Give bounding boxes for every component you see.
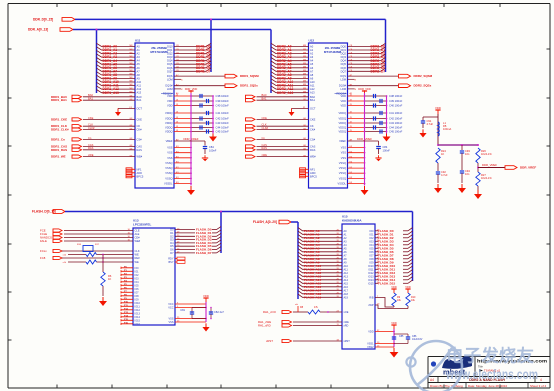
svg-text:A5: A5 [310,62,314,66]
svg-text:A19: A19 [344,296,349,299]
svg-text:DDR_VREF: DDR_VREF [357,137,372,141]
svg-text:LDM: LDM [167,77,172,81]
svg-text:WE#: WE# [137,155,143,159]
svg-text:RAS: RAS [137,148,143,152]
svg-text:VSSQ: VSSQ [165,176,172,180]
svg-text:VSS: VSS [168,321,173,324]
svg-text:VSSDL: VSSDL [337,182,346,186]
svg-text:BA0: BA0 [137,95,142,99]
svg-text:VDDQ: VDDQ [339,117,347,121]
svg-text:VDD: VDD [435,106,441,110]
svg-text:DQ4: DQ4 [341,59,347,63]
svg-text:WE: WE [135,260,139,264]
svg-text:FC8: FC8 [40,256,46,260]
svg-text:C81: C81 [180,308,185,312]
svg-text:A11: A11 [137,84,142,88]
svg-text:RH1_xRD: RH1_xRD [258,324,271,328]
svg-text:Date: Monday, June 28, 2010: Date: Monday, June 28, 2010 [468,384,507,388]
svg-text:DDR1_WE: DDR1_WE [51,155,66,159]
svg-text:1K24-1%: 1K24-1% [481,176,492,180]
svg-text:Drawn By: The YaoSong: Drawn By: The YaoSong [430,384,463,388]
svg-text:DQ2: DQ2 [341,52,347,56]
svg-text:电子发烧友: 电子发烧友 [446,346,534,366]
svg-text:xOE: xOE [344,311,349,314]
svg-text:FCLx: FCLx [40,249,47,253]
svg-text:4: 4 [540,378,542,382]
svg-text:C42 100nF: C42 100nF [389,117,403,121]
svg-text:VREF: VREF [339,139,346,143]
svg-text:IO16: IO16 [135,323,141,326]
svg-text:CE#: CE# [135,236,141,240]
svg-text:VDDQ: VDDQ [339,126,347,130]
svg-text:FLASH_D[0..15]: FLASH_D[0..15] [32,210,56,214]
svg-text:VSS: VSS [341,151,346,155]
svg-text:VSS: VSS [167,146,172,150]
svg-text:C38 100nF: C38 100nF [389,94,403,98]
svg-text:VSS: VSS [167,151,172,155]
svg-text:A0: A0 [137,45,141,49]
svg-text:DDR_VDD: DDR_VDD [185,87,198,91]
svg-text:DDR1_A13: DDR1_A13 [103,91,120,95]
svg-text:BPC5: BPC5 [310,174,317,178]
svg-text:ALE: ALE [135,232,140,236]
svg-text:MT47H32M8: MT47H32M8 [150,50,168,54]
svg-text:xWP: xWP [368,304,374,307]
svg-text:VSS: VSS [341,156,346,160]
svg-text:A3: A3 [137,55,141,59]
svg-text:xRST: xRST [344,340,351,343]
svg-text:FLASH_D7: FLASH_D7 [196,251,212,255]
svg-text:A1: A1 [310,48,314,52]
svg-text:C38 100nF: C38 100nF [216,94,230,98]
svg-text:C43 100nF: C43 100nF [216,121,230,125]
svg-text:A13: A13 [310,91,315,95]
svg-text:VSS: VSS [341,146,346,150]
svg-text:xRD: xRD [344,325,349,328]
svg-text:CK#: CK# [310,128,316,132]
svg-text:VDD: VDD [368,331,373,334]
svg-text:A7: A7 [137,69,141,73]
svg-text:DDR1_SQSx: DDR1_SQSx [240,84,258,88]
svg-text:C45 100nF: C45 100nF [216,130,230,134]
svg-text:DQ2: DQ2 [167,52,173,56]
svg-text:DQ3: DQ3 [167,55,173,59]
svg-text:DDR_D[0..15]: DDR_D[0..15] [33,18,53,22]
svg-text:A8: A8 [137,73,141,77]
svg-text:VDD: VDD [391,285,397,289]
svg-text:A4: A4 [430,378,434,382]
svg-text:1K: 1K [441,152,444,156]
svg-text:A5: A5 [137,62,141,66]
svg-text:A13: A13 [137,91,142,95]
svg-text:DQ3: DQ3 [341,55,347,59]
svg-text:RH1_xOO: RH1_xOO [263,310,277,314]
svg-text:10n: 10n [465,172,470,176]
svg-text:DQ0: DQ0 [341,45,347,49]
svg-text:CLE: CLE [135,229,140,233]
svg-text:1K24-1%: 1K24-1% [481,152,492,156]
svg-text:VCC: VCC [168,307,173,310]
svg-text:FLASH_D15: FLASH_D15 [378,281,396,285]
svg-text:A2: A2 [310,52,314,56]
svg-text:VDD: VDD [203,294,209,298]
svg-text:www.elecfans.com: www.elecfans.com [445,367,538,382]
svg-text:VDDQ: VDDQ [165,126,173,130]
svg-text:VDD: VDD [167,94,173,98]
svg-text:CK: CK [310,124,314,128]
svg-text:IO15: IO15 [368,282,374,285]
svg-text:CS#: CS# [137,137,143,141]
svg-text:NF1: NF1 [310,167,315,171]
svg-text:DDR2_D7: DDR2_D7 [371,69,386,73]
svg-text:BA1: BA1 [137,98,142,102]
svg-text:LDM: LDM [341,87,346,91]
svg-text:A0: A0 [310,45,314,49]
svg-text:VSSQ: VSSQ [165,166,172,170]
svg-text:FLASH_A19: FLASH_A19 [304,295,322,299]
svg-text:K9G8G08U0A: K9G8G08U0A [342,218,362,222]
svg-text:C41 100nF: C41 100nF [389,111,403,115]
svg-text:A1: A1 [137,48,141,52]
svg-text:C84: C84 [209,145,214,149]
svg-text:VSSQ: VSSQ [165,161,172,165]
svg-text:DDR_VREF: DDR_VREF [520,166,536,170]
svg-text:VSSDL: VSSDL [164,182,173,186]
svg-text:A11: A11 [310,84,315,88]
svg-text:A12: A12 [137,87,142,91]
svg-text:xRST: xRST [266,339,273,343]
svg-text:DDR1_SQSM: DDR1_SQSM [240,74,259,78]
svg-text:DDR1_CLK#: DDR1_CLK# [51,128,69,132]
svg-text:CS#: CS# [310,137,316,141]
svg-text:U12: U12 [309,39,315,43]
svg-text:4.7uF: 4.7uF [441,173,448,177]
svg-text:DDR1_D7: DDR1_D7 [196,69,211,73]
svg-text:LPC3250FEL: LPC3250FEL [133,222,152,226]
svg-text:CKE: CKE [137,117,143,121]
svg-text:DDR1_BA1: DDR1_BA1 [51,98,67,102]
svg-text:A12: A12 [310,87,315,91]
svg-text:VSSQ: VSSQ [339,176,346,180]
svg-text:C45 100nF: C45 100nF [389,130,403,134]
svg-text:100nF: 100nF [209,149,217,153]
svg-text:WE#: WE# [135,239,141,243]
svg-text:VSSQ: VSSQ [339,166,346,170]
svg-text:C44 100nF: C44 100nF [216,126,230,130]
svg-text:DQ6: DQ6 [167,66,173,70]
svg-text:VDDQ: VDDQ [165,111,173,115]
svg-text:CK: CK [137,124,141,128]
svg-text:LDM: LDM [341,77,346,81]
svg-text:VREF: VREF [166,139,173,143]
svg-text:VDDQ: VDDQ [339,130,347,134]
svg-text:DDR2_SQSx: DDR2_SQSx [414,84,432,88]
svg-text:DDR_VDD: DDR_VDD [358,87,371,91]
svg-text:A10: A10 [310,80,315,84]
svg-text:DQ1: DQ1 [341,48,347,52]
svg-text:DDR1_CKE: DDR1_CKE [51,117,67,121]
svg-text:10n: 10n [465,152,470,156]
svg-text:DDR1_RAS: DDR1_RAS [51,148,67,152]
svg-text:DDR2_A13: DDR2_A13 [277,91,294,95]
svg-text:A2: A2 [137,52,141,56]
svg-text:VDDQ: VDDQ [165,117,173,121]
svg-text:Sheet 3 of 4: Sheet 3 of 4 [530,384,547,388]
svg-text:100mA: 100mA [443,127,451,131]
svg-text:DQ5: DQ5 [167,62,173,66]
svg-text:VDD: VDD [341,94,347,98]
svg-text:A6: A6 [310,66,314,70]
svg-text:WE#: WE# [310,155,316,159]
svg-text:VDDQ: VDDQ [339,121,347,125]
svg-text:CAS: CAS [310,144,316,148]
svg-text:A10: A10 [137,80,142,84]
svg-text:1K: 1K [108,277,111,281]
svg-text:FLASH_A[0..20]: FLASH_A[0..20] [253,220,277,224]
svg-text:A4: A4 [137,59,141,63]
svg-text:VSSQ: VSSQ [339,171,346,175]
svg-text:A8: A8 [310,73,314,77]
svg-text:ADD: ADD [310,171,316,175]
svg-text:DQ6: DQ6 [341,66,347,70]
svg-text:C41 100nF: C41 100nF [216,111,230,115]
svg-text:NF1: NF1 [137,167,142,171]
svg-text:DDR_VREF: DDR_VREF [184,137,199,141]
svg-text:C40 100nF: C40 100nF [216,104,230,108]
svg-text:VDD: VDD [405,285,411,289]
svg-text:R/B: R/B [369,297,374,300]
svg-text:BA0: BA0 [310,95,315,99]
svg-text:BA1: BA1 [310,98,315,102]
svg-text:A3: A3 [310,55,314,59]
svg-text:VDD: VDD [167,99,173,103]
svg-text:LDM: LDM [167,87,172,91]
svg-text:C85: C85 [399,335,404,338]
svg-text:DDR_VREF: DDR_VREF [482,163,497,167]
svg-text:100nF: 100nF [383,149,391,153]
svg-text:A7: A7 [310,69,314,73]
svg-text:DQ5: DQ5 [341,62,347,66]
svg-text:WE: WE [135,253,139,257]
svg-text:CK#: CK# [137,128,143,132]
svg-text:U11: U11 [135,39,141,43]
svg-text:C40 100nF: C40 100nF [389,104,403,108]
svg-text:MT47H32M8: MT47H32M8 [324,50,342,54]
svg-text:ADD: ADD [137,171,143,175]
svg-text:A4: A4 [310,59,314,63]
svg-text:CKE: CKE [310,117,316,121]
svg-text:C39 100nF: C39 100nF [216,99,230,103]
svg-text:DQ7: DQ7 [341,69,347,73]
svg-text:DDR_A[0..13]: DDR_A[0..13] [28,28,48,32]
svg-text:C42 100nF: C42 100nF [216,117,230,121]
svg-text:CAS: CAS [137,144,143,148]
svg-text:CLK: CLK [135,249,140,253]
svg-text:VDD: VDD [391,321,397,325]
svg-text:VDD: VDD [341,104,347,108]
svg-text:4.7uF: 4.7uF [427,122,434,126]
svg-text:VDDQ: VDDQ [165,121,173,125]
svg-text:A6: A6 [137,66,141,70]
svg-text:DQ0: DQ0 [167,45,173,49]
svg-text:VDDQ: VDDQ [165,130,173,134]
svg-text:DDR2_SQSM: DDR2_SQSM [414,74,433,78]
svg-text:RE#: RE# [135,256,141,260]
svg-text:DDR1_Cn: DDR1_Cn [51,137,65,141]
svg-text:VSS2: VSS2 [367,346,374,349]
svg-text:VSSQ: VSSQ [165,171,172,175]
svg-text:BPC5: BPC5 [137,174,144,178]
svg-text:DQ1: DQ1 [167,48,173,52]
svg-text:C84: C84 [383,145,388,149]
svg-text:C43 100nF: C43 100nF [389,121,403,125]
svg-text:DQ7: DQ7 [167,69,173,73]
svg-text:A9: A9 [137,77,141,81]
svg-text:BSY: BSY [168,261,173,264]
svg-text:C39 100nF: C39 100nF [389,99,403,103]
svg-text:RAS: RAS [310,148,316,152]
svg-text:C82 4u7: C82 4u7 [214,310,224,314]
svg-text:VDDQ: VDDQ [339,111,347,115]
svg-text:VDD: VDD [167,104,173,108]
svg-text:C44 100nF: C44 100nF [389,126,403,130]
svg-text:VSS: VSS [167,156,172,160]
svg-text:OCT: OCT [137,106,143,110]
svg-text:A9: A9 [310,77,314,81]
svg-text:FALE: FALE [40,239,47,243]
svg-text:VSSQ: VSSQ [339,161,346,165]
svg-text:VDD: VDD [341,99,347,103]
svg-text:10uF/16V: 10uF/16V [412,338,423,341]
svg-text:OCT: OCT [310,106,316,110]
svg-text:DQ4: DQ4 [167,59,173,63]
